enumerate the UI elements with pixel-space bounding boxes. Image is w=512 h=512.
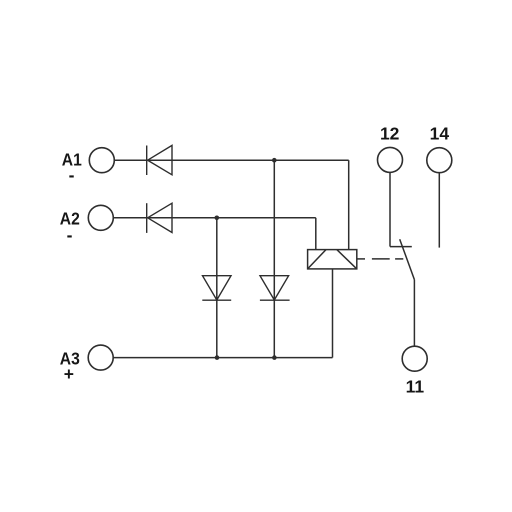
wire A2 horizontal [113,217,316,219]
diode V3 triangle [203,276,232,300]
node A3/V3 junction [215,355,220,360]
wire mover down to 11 [413,280,415,347]
diode V2 triangle [148,203,172,232]
terminal circle 11 [402,346,427,371]
diode V4 cathode bar [260,299,290,301]
wire A1 horizontal [114,159,349,161]
svg-text:12: 12 [380,123,400,143]
node on A2 line (branch to V3) [215,216,220,221]
dashed actuation link segment 1 [357,258,365,260]
svg-text:-: - [69,165,75,185]
terminal circle A3 [88,345,113,370]
relay coil K1 right diagonal [337,250,357,269]
svg-text:11: 11 [406,377,425,397]
terminal circle A2 [88,205,113,230]
wire from 14 down (NO contact end) [438,173,440,248]
diode V4 triangle [260,276,289,300]
switch mover diagonal [400,239,415,279]
wire from 12 down [389,172,391,246]
node on A1 line (branch to V4) [272,158,277,163]
wire A3 horizontal [113,357,333,359]
wire A2 vertical down to coil [315,218,317,250]
diode V1 cathode bar [146,146,148,176]
wire branch V4 vertical [273,160,275,357]
fixed contact seat bar of 12 [390,246,412,248]
relay coil K1 body [308,250,357,269]
terminal circle A1 [89,148,114,173]
wire branch V3 vertical [216,218,218,358]
terminal circle 14 [427,148,452,173]
wire A1 vertical down to coil [348,160,350,249]
svg-text:-: - [67,225,73,245]
relay coil K1 left diagonal [308,250,326,269]
diode V2 cathode bar [146,203,148,233]
svg-text:14: 14 [430,123,450,143]
wire A3 vertical up to coil bottom [332,269,334,358]
node A3/V4 junction [272,355,277,360]
svg-text:+: + [64,364,74,384]
diode V3 cathode bar [202,299,231,301]
dashed actuation link segment 3 [395,258,403,260]
diode V1 triangle [148,145,172,174]
dashed actuation link segment 2 [372,258,390,260]
terminal circle 12 [378,147,403,172]
